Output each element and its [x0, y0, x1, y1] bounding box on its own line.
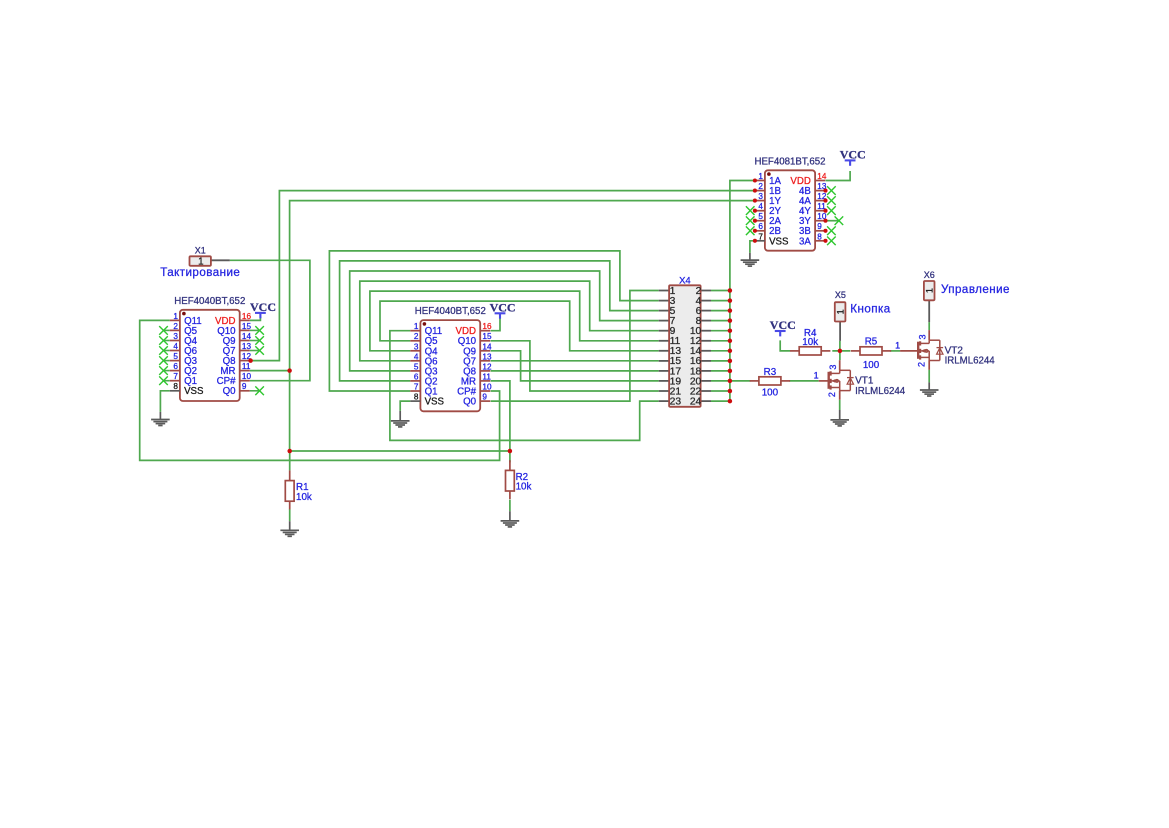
svg-text:Q0: Q0 — [463, 397, 477, 408]
svg-text:13: 13 — [482, 352, 492, 361]
svg-text:14: 14 — [817, 172, 827, 181]
svg-text:24: 24 — [690, 396, 702, 407]
svg-text:VSS: VSS — [184, 386, 204, 397]
svg-text:9: 9 — [817, 222, 822, 231]
svg-text:16: 16 — [482, 322, 492, 331]
svg-text:IRLML6244: IRLML6244 — [855, 386, 906, 397]
svg-text:3: 3 — [917, 334, 927, 339]
svg-text:5: 5 — [173, 352, 178, 361]
svg-text:14: 14 — [242, 332, 252, 341]
svg-text:4: 4 — [758, 202, 763, 211]
svg-text:3: 3 — [173, 332, 178, 341]
svg-text:6: 6 — [414, 372, 419, 381]
svg-text:10k: 10k — [802, 337, 818, 348]
svg-text:8: 8 — [817, 232, 822, 241]
svg-text:R3: R3 — [764, 367, 777, 378]
svg-text:8: 8 — [173, 382, 178, 391]
svg-text:15: 15 — [242, 322, 252, 331]
svg-text:1: 1 — [814, 371, 819, 381]
svg-text:VCC: VCC — [490, 300, 516, 314]
svg-text:4: 4 — [173, 342, 178, 351]
svg-text:1: 1 — [173, 312, 178, 321]
svg-text:R5: R5 — [865, 336, 878, 347]
svg-text:3: 3 — [758, 192, 763, 201]
svg-text:X6: X6 — [924, 270, 935, 280]
svg-text:11: 11 — [242, 362, 251, 371]
svg-text:Кнопка: Кнопка — [850, 303, 890, 316]
svg-text:7: 7 — [173, 372, 178, 381]
svg-text:VSS: VSS — [769, 236, 789, 247]
svg-text:HEF4081BT,652: HEF4081BT,652 — [754, 156, 825, 167]
svg-text:1: 1 — [414, 322, 419, 331]
svg-text:Q0: Q0 — [223, 386, 237, 397]
svg-text:3: 3 — [414, 342, 419, 351]
svg-text:10: 10 — [482, 383, 492, 392]
svg-text:1: 1 — [895, 341, 900, 351]
svg-text:Управление: Управление — [941, 283, 1010, 296]
svg-text:HEF4040BT,652: HEF4040BT,652 — [174, 296, 245, 307]
svg-text:11: 11 — [482, 372, 491, 381]
svg-text:2: 2 — [758, 182, 763, 191]
svg-text:2: 2 — [173, 322, 178, 331]
svg-text:1: 1 — [758, 172, 763, 181]
svg-text:13: 13 — [242, 342, 252, 351]
svg-text:VSS: VSS — [425, 397, 445, 408]
svg-text:2: 2 — [414, 332, 419, 341]
svg-text:1: 1 — [835, 309, 845, 314]
svg-text:7: 7 — [758, 232, 763, 241]
svg-text:X1: X1 — [195, 245, 206, 255]
svg-text:100: 100 — [762, 387, 779, 398]
svg-text:7: 7 — [414, 383, 419, 392]
svg-text:1: 1 — [924, 288, 934, 293]
svg-text:VCC: VCC — [250, 300, 276, 314]
svg-text:4: 4 — [414, 352, 419, 361]
svg-text:15: 15 — [482, 332, 492, 341]
svg-text:6: 6 — [758, 222, 763, 231]
svg-text:Тактирование: Тактирование — [160, 266, 240, 279]
svg-text:6: 6 — [173, 362, 178, 371]
svg-text:9: 9 — [482, 393, 487, 402]
svg-text:5: 5 — [758, 212, 763, 221]
svg-text:23: 23 — [670, 396, 682, 407]
svg-text:2: 2 — [827, 392, 837, 397]
svg-text:9: 9 — [242, 382, 247, 391]
svg-text:HEF4040BT,652: HEF4040BT,652 — [415, 306, 486, 317]
svg-text:3A: 3A — [799, 236, 811, 247]
svg-text:3: 3 — [828, 365, 838, 370]
svg-text:10: 10 — [242, 372, 252, 381]
svg-text:X5: X5 — [835, 290, 846, 300]
svg-text:10k: 10k — [516, 482, 532, 493]
svg-text:12: 12 — [482, 362, 492, 371]
svg-text:X4: X4 — [679, 276, 691, 287]
svg-text:IRLML6244: IRLML6244 — [945, 356, 996, 367]
svg-text:VCC: VCC — [840, 148, 866, 162]
svg-text:2: 2 — [917, 362, 927, 367]
svg-text:10k: 10k — [296, 492, 312, 503]
svg-text:100: 100 — [863, 360, 880, 371]
svg-text:VCC: VCC — [770, 318, 796, 332]
svg-text:14: 14 — [482, 342, 492, 351]
svg-text:8: 8 — [414, 393, 419, 402]
svg-text:5: 5 — [414, 362, 419, 371]
